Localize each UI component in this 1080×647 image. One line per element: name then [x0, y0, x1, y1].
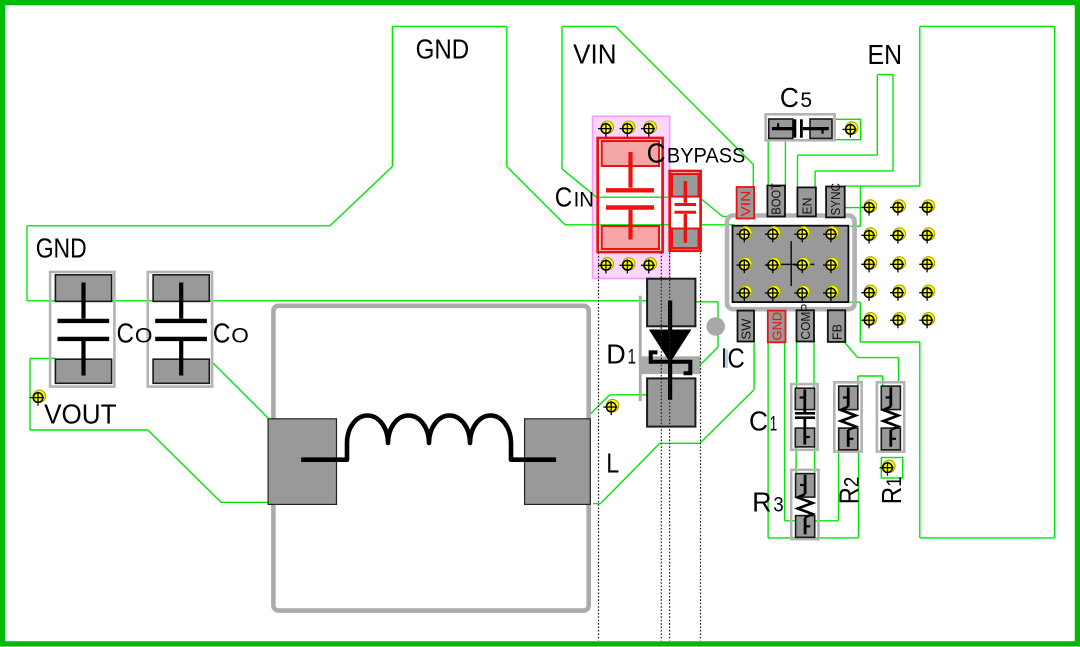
pin BOOT (pin 1)	[767, 183, 785, 216]
svg-text:GND: GND	[416, 34, 470, 65]
via CIN bottom 2	[620, 258, 636, 274]
capacitor C1 (comp cap)	[791, 384, 817, 450]
pin FB (pin 4)	[828, 310, 846, 342]
svg-text:D: D	[606, 339, 626, 370]
wire via-array pour bottom	[860, 341, 920, 343]
capacitor CBYPASS (input hf cap)	[670, 171, 701, 251]
wire D1 stub drop	[717, 302, 719, 347]
wire COMP to C1 left edge	[796, 342, 798, 389]
wire GND pour neck top edge	[392, 25, 506, 27]
wire CO2 to L diagonal	[213, 363, 269, 419]
pin COMP	[797, 304, 815, 342]
via L/SW node	[603, 399, 619, 415]
pin SW (pin 8)	[738, 311, 755, 342]
wire GND pour diagonal right	[507, 167, 565, 225]
IC label blue artifact	[725, 350, 728, 369]
resistor R2	[834, 382, 861, 451]
via CIN top 3	[641, 121, 657, 137]
wire VOUT run to L pad	[221, 501, 269, 503]
inductor L right pad	[525, 419, 591, 505]
wire C5 to BOOT left edge	[767, 140, 769, 185]
pin SYNC	[826, 183, 845, 217]
wire GND pour top edge right run	[565, 224, 735, 226]
IC pin-1 dot	[706, 317, 725, 336]
wire VIN pour left edge	[561, 26, 563, 169]
IC center crosshair	[767, 263, 815, 265]
wire C1 to R3 right edge	[814, 447, 816, 473]
pin EN (pin 5)	[797, 187, 816, 216]
wire D1 pad stub	[695, 301, 718, 303]
wire L via to D1 cathode pad	[610, 394, 648, 396]
wire GND pour left edge	[26, 226, 28, 301]
svg-text:R: R	[752, 486, 772, 517]
wire SYNC to right pour	[845, 185, 920, 187]
via grid IC thermal pad	[736, 227, 752, 243]
capacitor CIN body background	[598, 138, 663, 252]
svg-text:L: L	[606, 448, 619, 479]
wire VIN pour lower diagonal	[562, 169, 597, 197]
wire VIN stub to IC	[723, 216, 735, 218]
IC courtyard frame	[727, 216, 855, 310]
via CIN top 1	[598, 121, 614, 137]
wire GND trace upper run to R2	[785, 520, 839, 522]
wire D1 stub diagonal	[691, 347, 718, 374]
wire C5 to BOOT right edge	[784, 140, 786, 185]
svg-text:EN: EN	[799, 198, 814, 215]
pin VIN (pin 7)	[737, 187, 755, 219]
via CIN bottom 3	[641, 258, 657, 274]
wire EN trace top cap	[877, 74, 893, 76]
svg-text:O: O	[135, 323, 153, 347]
svg-text:VOUT: VOUT	[44, 399, 117, 430]
wire VIN diagonal from CBYPASS	[700, 198, 723, 217]
wire R2-R1 top link	[858, 375, 883, 377]
wire GND trace riser to R2 right	[858, 451, 860, 538]
capacitor CIN (input bulk cap)	[598, 138, 663, 252]
svg-text:1: 1	[628, 345, 636, 369]
via CIN top 2	[620, 121, 636, 137]
IC thermal pad	[733, 226, 849, 302]
resistor R1	[877, 382, 904, 451]
wire R2 top riser	[857, 376, 859, 387]
wire SW diagonal upper	[700, 390, 754, 444]
svg-text:BYPASS: BYPASS	[667, 144, 746, 168]
wire R1 via enclosure	[881, 458, 902, 479]
wire EN trace upper run	[798, 154, 878, 156]
wire SW diagonal lower	[600, 443, 659, 503]
wire right pour right edge	[1054, 26, 1056, 538]
wire FB diagonal	[844, 342, 857, 358]
wire GND pin trace right edge	[784, 342, 786, 521]
svg-text:IC: IC	[721, 342, 745, 373]
wire via-array pour left lower	[859, 302, 861, 342]
diode D1	[639, 279, 701, 427]
wire right pour top edge	[920, 25, 1055, 27]
pin GND (pin 9)	[768, 311, 786, 343]
wire EN trace left riser	[876, 75, 878, 156]
capacitor CO (first output cap)	[50, 272, 114, 387]
wire GND pour neck left edge	[391, 26, 393, 166]
svg-text:3: 3	[773, 492, 783, 516]
svg-text:SYNC: SYNC	[828, 183, 843, 216]
wire EN trace left drop	[797, 155, 799, 187]
wire C5 via enclosure	[834, 119, 860, 139]
inductor L left pad	[268, 419, 336, 505]
via array right GND stitching	[861, 200, 877, 216]
wire R1 top riser	[882, 376, 884, 387]
svg-text:COMP: COMP	[798, 304, 813, 340]
svg-text:C: C	[213, 317, 231, 348]
capacitor C5 (bootstrap)	[766, 114, 835, 140]
via CIN bottom 1	[598, 258, 614, 274]
svg-text:IN: IN	[574, 188, 594, 212]
wire via-array pour notch lower	[850, 301, 861, 303]
pink highlight region around CIN	[593, 116, 670, 278]
capacitor CO (second output cap)	[148, 272, 212, 387]
wire GND pin trace left edge	[767, 342, 769, 538]
wire VOUT stub to CO1	[30, 357, 55, 359]
wire via-array pour notch upper	[850, 225, 860, 227]
wire SW stub to L pad	[593, 503, 600, 505]
inductor L coil symbol	[301, 416, 556, 460]
wire GND pour diagonal left	[330, 167, 392, 226]
svg-text:O: O	[231, 323, 249, 347]
wire EN trace right riser	[892, 75, 894, 171]
via C5/EN	[843, 122, 859, 138]
svg-text:GND: GND	[769, 312, 784, 341]
svg-text:EN: EN	[868, 39, 903, 70]
svg-text:C: C	[780, 82, 799, 113]
wire right pour left edge upper	[919, 26, 921, 186]
wire GND trace lower run	[768, 537, 859, 539]
svg-text:BOOT: BOOT	[769, 183, 784, 215]
wire GND trace riser to R2 left	[838, 451, 840, 520]
svg-text:1: 1	[770, 412, 778, 436]
wire FB run	[858, 357, 899, 359]
wire dotted return-path boundary lines	[598, 253, 600, 641]
wire GND pour neck right edge	[506, 26, 508, 166]
power-stage courtyard outline	[273, 306, 588, 611]
svg-text:VIN: VIN	[573, 39, 616, 70]
svg-text:C: C	[647, 138, 666, 169]
wire right pour left edge lower	[919, 342, 921, 538]
wire via-array pour left upper	[859, 186, 861, 226]
wire VIN pour top edge	[562, 25, 615, 27]
wire VIN rail through CIN	[597, 196, 700, 198]
wire VOUT left edge	[29, 358, 31, 430]
wire FB drop to R1	[898, 358, 900, 384]
wire GND horizontal rail to D1 anode	[27, 300, 647, 302]
wire L via diagonal to L pad	[591, 395, 610, 414]
via VOUT	[30, 390, 46, 406]
svg-text:C: C	[749, 406, 768, 437]
svg-text:5: 5	[800, 88, 812, 112]
resistor R3	[791, 470, 818, 539]
wire SW horizontal run	[660, 442, 700, 444]
svg-text:FB: FB	[829, 324, 844, 340]
wire VIN pour diagonal to VIN pin	[615, 26, 753, 164]
wire SW pin drop	[753, 342, 755, 389]
wire SYNC lower stub	[845, 207, 861, 209]
wire VIN pour drop to VIN pin	[752, 165, 754, 188]
wire VOUT diagonal	[148, 430, 221, 502]
svg-text:VIN: VIN	[738, 191, 753, 217]
wire GND pour top edge left run	[27, 225, 330, 227]
wire EN trace lower run	[815, 170, 893, 172]
wire COMP to C1 right edge	[813, 342, 815, 389]
via R1 bottom	[880, 460, 896, 476]
svg-text:C: C	[555, 182, 573, 213]
wire VOUT bottom run	[30, 429, 148, 431]
wire right pour bottom edge	[920, 537, 1055, 539]
wire C1 to R3 left edge	[795, 447, 797, 473]
wire EN trace right drop	[814, 171, 816, 187]
svg-text:GND: GND	[36, 233, 87, 264]
svg-text:C: C	[117, 317, 135, 348]
svg-text:SW: SW	[739, 318, 754, 340]
